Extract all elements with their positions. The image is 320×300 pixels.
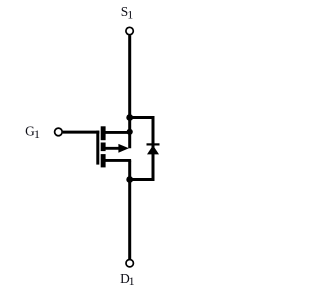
label D1 [120,271,135,288]
wire channel top horizontal [104,131,130,134]
label S1 [121,4,133,22]
terminal D1 [126,260,133,267]
terminal G1 [55,128,63,136]
wire diode top branch [130,116,155,119]
node junction A (source / diode cathode branch) [126,114,133,121]
wire gate horizontal [63,131,100,134]
wire channel bottom horizontal [104,159,131,162]
diode D (body diode) [147,143,160,154]
mosfet Q1 body arrow (points away from channel: P-channel) [118,144,128,153]
wire source vertical [128,35,131,148]
mosfet Q1 channel segment middle [101,143,106,152]
mosfet Q1 channel segment top [101,126,106,140]
svg-text:1: 1 [127,8,133,22]
node junction C (drain / diode anode branch) [126,176,133,183]
wire diode branch vertical [152,116,155,181]
mosfet Q1 channel segment bottom [101,154,106,167]
wire body tie horizontal [104,147,124,150]
node junction B (source to channel top) [127,129,133,135]
wire diode bottom branch [130,178,155,181]
svg-text:1: 1 [34,127,40,141]
wire drain vertical [128,160,131,259]
terminal S1 [126,27,133,34]
label G1 [25,124,40,141]
svg-text:1: 1 [129,274,135,288]
mosfet Q1 gate bar [96,131,99,165]
